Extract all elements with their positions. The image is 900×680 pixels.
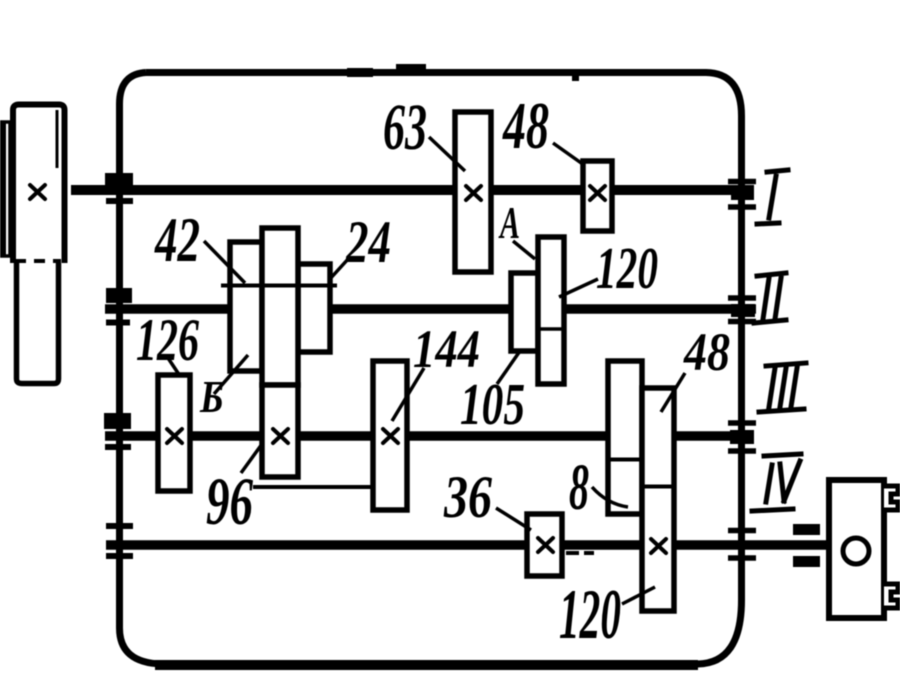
housing gearbox outline <box>120 73 742 666</box>
chuck hole <box>843 538 869 564</box>
pulley black band <box>0 121 11 257</box>
cross gear 48 I <box>590 186 605 200</box>
gear 24 (cluster right block) <box>298 264 330 352</box>
cross gear 36 <box>538 538 553 552</box>
svg-text:48: 48 <box>502 89 549 163</box>
leader 120 shaft II <box>559 279 598 297</box>
gear 42 (cluster left block) <box>230 242 262 371</box>
shaft III right end blob <box>730 430 754 444</box>
leader 144 <box>392 368 424 421</box>
numeral I <box>757 170 788 224</box>
bearing shaft I right <box>728 182 756 208</box>
svg-text:48: 48 <box>683 322 730 382</box>
bearing shaft II left <box>106 288 132 323</box>
gear 48 column divider <box>608 458 642 462</box>
svg-text:63: 63 <box>383 91 427 164</box>
leader 24 <box>329 258 349 280</box>
cluster middle block on shaft II <box>262 228 298 385</box>
leader 36 <box>496 508 531 530</box>
chuck top jaw <box>884 486 898 510</box>
bearing shaft IV left <box>106 526 133 556</box>
svg-text:42: 42 <box>154 204 200 275</box>
leader 96 <box>241 444 262 473</box>
shaft I right end blob <box>731 186 754 200</box>
cross gear 126 <box>167 429 182 443</box>
cross gear 144 <box>383 429 398 443</box>
gear 120 step line <box>538 327 564 331</box>
shaft IV small ticks <box>566 551 594 555</box>
cross gear 120 IV <box>651 539 666 553</box>
svg-text:24: 24 <box>345 209 391 275</box>
svg-text:36: 36 <box>443 464 492 530</box>
gear 126 on shaft III <box>158 375 190 491</box>
pulley inner edge line <box>56 110 59 168</box>
svg-text:120: 120 <box>559 576 621 654</box>
chuck bottom jaw <box>884 584 898 608</box>
svg-text:8: 8 <box>569 451 589 524</box>
leader 105 <box>497 351 520 384</box>
coupling on shaft IV <box>793 524 820 567</box>
leader 8 <box>592 487 628 507</box>
svg-text:Б: Б <box>199 371 224 422</box>
gear 48 on shaft I <box>583 161 612 231</box>
bearing shaft I left <box>105 173 133 201</box>
shaft I <box>71 185 754 195</box>
reference line 96 to gear 144 <box>253 485 372 489</box>
pulley dashed boundary <box>15 259 61 263</box>
cluster step line <box>221 284 337 288</box>
leader 48 shaft III <box>661 373 685 412</box>
svg-text:126: 126 <box>136 307 199 373</box>
svg-text:105: 105 <box>460 371 525 437</box>
gear 36 on shaft IV <box>527 514 562 576</box>
svg-text:A: A <box>498 197 520 248</box>
svg-text:96: 96 <box>206 463 253 539</box>
leader B <box>214 355 248 394</box>
shaft III <box>105 431 754 441</box>
chuck body <box>829 480 884 618</box>
shaft II <box>105 304 756 314</box>
leader 63 <box>429 137 465 171</box>
leader 48 shaft I <box>553 143 584 165</box>
gear 48 column on shaft III <box>608 361 642 514</box>
bearing shaft II right <box>728 298 756 322</box>
bearing shaft III left <box>104 413 131 447</box>
gear 105 on shaft II <box>511 273 538 351</box>
pulley upper sheave <box>13 105 65 264</box>
numeral II <box>754 273 786 323</box>
pulley cross <box>30 185 45 199</box>
leader 42 <box>204 241 245 283</box>
bearing shaft IV right <box>728 531 756 559</box>
leader 126 <box>166 355 180 376</box>
numeral III <box>759 363 806 412</box>
gear 63 on shaft I <box>455 112 491 272</box>
leader A <box>513 241 535 259</box>
housing top-edge scan blob <box>396 64 426 76</box>
gear 120 column on shaft IV <box>642 388 674 611</box>
gear 120 column divider <box>642 485 674 489</box>
gear 120 on shaft II <box>538 237 564 384</box>
leader 120 shaft IV <box>622 587 655 604</box>
shaft II right end blob <box>731 304 755 317</box>
gear 144 on shaft III <box>373 361 407 510</box>
pulley lower hub <box>17 263 59 384</box>
bearing shaft III right <box>728 423 756 451</box>
numeral IV <box>752 454 801 511</box>
cross gear 63 <box>466 186 481 200</box>
gear 96 on shaft III <box>262 385 298 477</box>
cross gear 96 <box>273 429 288 443</box>
shaft IV <box>106 540 827 550</box>
svg-text:120: 120 <box>596 235 658 301</box>
